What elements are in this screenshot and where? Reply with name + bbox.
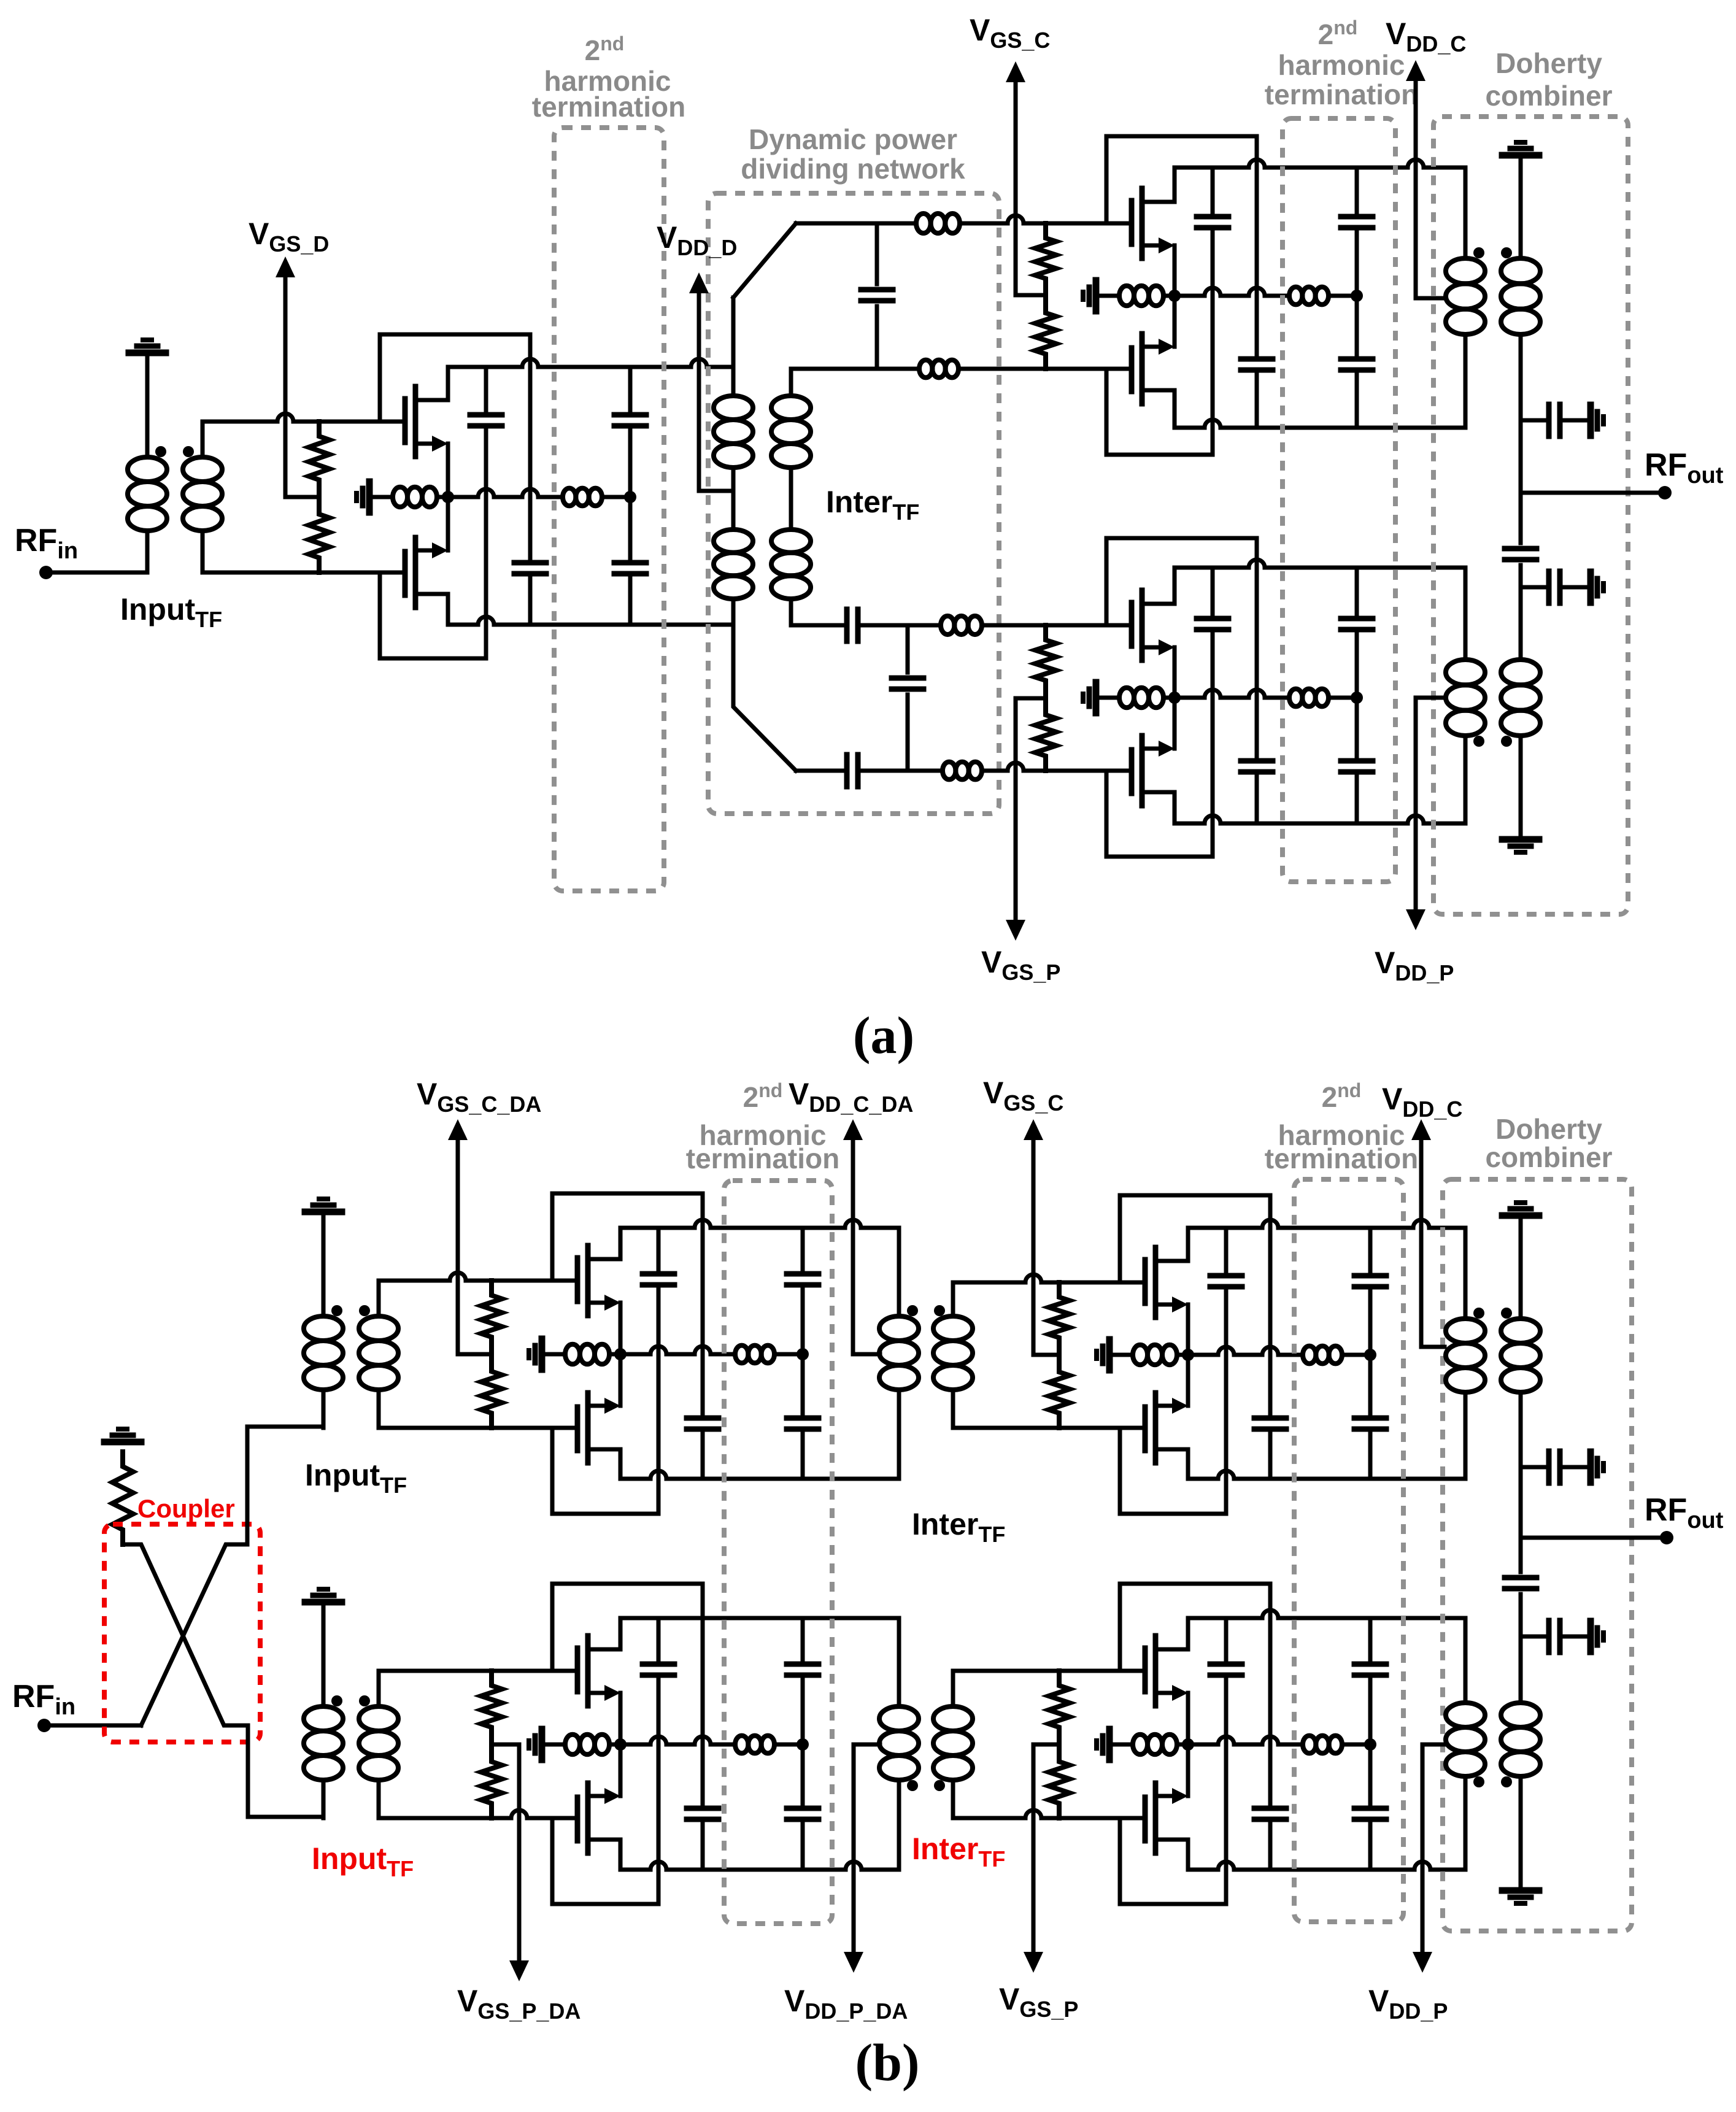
V_GS_P bias jog wire (a) xyxy=(1016,696,1046,701)
b-driver-peaking primary coil bottom lead xyxy=(322,1780,326,1818)
carrier gate bias resistor R-bottom xyxy=(1035,298,1056,369)
RF_in wire (b) xyxy=(44,1724,141,1728)
shunt cap to ground 1 (a) xyxy=(1521,418,1546,423)
b2nd-peaking gate-bottom rail xyxy=(953,1810,1145,1818)
driver secondary bottom lead xyxy=(201,531,205,572)
Doherty bottom primary bottom lead (b) xyxy=(1464,1776,1468,1870)
peaking branch series capacitor C-p1 xyxy=(844,609,850,641)
b-peaking tail line to harmonic network xyxy=(1188,1736,1303,1744)
RF_out terminal node (b) xyxy=(1660,1531,1673,1544)
b-carrier tail wire to inductor xyxy=(1109,1353,1133,1357)
b-carrier neutralization capacitor C-cross-bottom xyxy=(1224,1228,1229,1271)
driver upper NMOS source lead xyxy=(446,444,450,497)
Doherty top secondary ground (b) xyxy=(1502,1212,1539,1219)
2nd harmonic termination box (b left) xyxy=(724,1181,832,1924)
carrier harmonic-termination inductor L-2f0 xyxy=(1289,287,1302,305)
b-driver-carrier lower NMOS drain lead xyxy=(619,1449,623,1479)
carrier drain-top rail xyxy=(1175,160,1465,168)
b-carrier tail wire xyxy=(1177,1353,1188,1357)
Doherty top transformer dots (b) xyxy=(1473,1308,1484,1319)
combiner output line upper (b) xyxy=(1519,1392,1523,1538)
b-driver-carrier source junction node xyxy=(614,1348,627,1360)
InterTF secondary bottom lead xyxy=(789,599,793,625)
V_GS_C bias arrow (b) xyxy=(1032,1138,1036,1355)
b-driver-carrier tail ground xyxy=(539,1339,546,1370)
InterTF primary lower coil xyxy=(714,530,753,553)
b-driver-peaking harmonic-termination inductor L-2f0 xyxy=(735,1736,748,1754)
b-driver-peaking gate bias resistor R-top xyxy=(481,1671,502,1742)
V_DD_D bias arrow xyxy=(697,291,701,491)
V_DD_C center-tap jog (b) xyxy=(1421,1345,1445,1349)
Doherty bottom transformer primary coil (b) xyxy=(1446,1703,1485,1727)
b-driver-peaking drain-bottom rail xyxy=(620,1862,899,1870)
divider diagonal to peaking branch xyxy=(733,625,796,771)
b-driver-peaking input transformer primary ground xyxy=(305,1599,342,1606)
driver gate-top rail xyxy=(203,414,405,422)
InterTF secondary upper coil xyxy=(771,396,811,420)
b-driver-carrier tail wire to inductor xyxy=(542,1352,565,1357)
carrier gate-bottom rail w/ inductor xyxy=(791,367,919,371)
b-driver-peaking harmonic termination node xyxy=(797,1738,809,1751)
V_GS_P_DA bias jog wire xyxy=(492,1743,519,1747)
b-peaking harmonic termination capacitor C-bottom xyxy=(1368,1744,1373,1804)
peaking neutralization capacitor C-cross-top xyxy=(1241,758,1273,764)
b-peaking upper NMOS source lead xyxy=(1186,1693,1190,1744)
Doherty bottom transformer dots (a) xyxy=(1473,736,1484,747)
Doherty bottom transformer secondary coil (a) xyxy=(1501,660,1540,685)
carrier branch inductor L-c2 xyxy=(919,360,932,378)
V_DD_C center-tap jog (a) xyxy=(1416,296,1445,301)
b-driver-carrier lower NMOS source lead xyxy=(619,1354,623,1406)
peaking branch series capacitor C-p2 xyxy=(844,755,850,787)
carrier upper NMOS transistor xyxy=(1129,201,1135,244)
peaking upper NMOS source lead xyxy=(1173,647,1177,698)
InterTF (b2) primary coil xyxy=(879,1706,919,1731)
InterTF (b1) primary bottom lead xyxy=(897,1390,901,1479)
2nd harmonic termination box (b right) xyxy=(1294,1179,1403,1922)
b-carrier harmonic termination capacitor C-top xyxy=(1368,1228,1373,1271)
b-peaking neutralization capacitor C-cross-top xyxy=(1254,1806,1286,1811)
b-driver-peaking lower NMOS source lead xyxy=(619,1744,623,1796)
driver lower NMOS drain lead xyxy=(446,594,450,625)
coupler to bottom InputTF wire xyxy=(248,1725,323,1817)
carrier gate bias resistor R-top xyxy=(1035,223,1056,293)
InterTF secondary lower coil xyxy=(771,530,811,553)
RF_out wire (a) xyxy=(1521,491,1665,495)
combiner output line lower (a) xyxy=(1519,587,1523,660)
b-carrier drain-bottom rail xyxy=(1188,1471,1465,1479)
b-driver-carrier harmonic termination capacitor C-top xyxy=(801,1228,805,1270)
Doherty bottom secondary ground (a) xyxy=(1519,736,1523,839)
b2nd-peaking gate-top rail xyxy=(953,1669,1145,1673)
V_DD_C_DA center-tap jog xyxy=(853,1352,880,1357)
V_DD_P bias arrow (b) xyxy=(1421,1744,1425,1954)
b-driver-carrier transformer polarity dots xyxy=(331,1305,342,1316)
InterTF (b1) secondary bottom lead xyxy=(951,1390,955,1428)
peaking lower NMOS drain lead xyxy=(1173,792,1177,823)
b-driver-peaking wire xyxy=(774,1743,803,1747)
carrier tail wire to inductor xyxy=(1096,294,1119,298)
b-driver-peaking neutralization capacitor C-cross-bottom xyxy=(657,1618,661,1660)
driver upper NMOS transistor xyxy=(403,399,408,442)
shunt cap to ground 1 (b) xyxy=(1521,1465,1546,1470)
InterTF (b1) secondary top lead xyxy=(951,1282,955,1316)
peaking lower NMOS source lead xyxy=(1173,698,1177,749)
b-carrier cross-couple bottom loop wire xyxy=(1120,1428,1226,1514)
Dynamic power dividing network box xyxy=(708,193,999,814)
coupler isolation resistor xyxy=(112,1452,133,1544)
svg-text:termination: termination xyxy=(1265,1143,1418,1174)
carrier gate-bottom rail xyxy=(959,367,1132,371)
peaking tail choke inductor L-tail xyxy=(1119,688,1134,707)
peaking upper NMOS drain lead xyxy=(1173,568,1177,604)
Doherty top transformer secondary coil (a) xyxy=(1501,258,1540,283)
divider diagonal to carrier branch xyxy=(733,223,796,298)
b-carrier neutralization capacitor C-cross-top xyxy=(1254,1416,1286,1421)
b-peaking upper NMOS transistor xyxy=(1143,1648,1148,1692)
b-carrier harmonic termination capacitor C-bottom xyxy=(1368,1355,1373,1414)
coupler to top InputTF wire xyxy=(247,1427,323,1544)
peaking branch inductor L-p2 xyxy=(943,762,955,780)
carrier tail line to harmonic network xyxy=(1175,288,1289,296)
carrier upper NMOS drain lead xyxy=(1173,168,1177,202)
b-carrier upper NMOS transistor xyxy=(1143,1260,1148,1303)
V_DD_P_DA bias arrow xyxy=(852,1744,856,1954)
InterTF secondary mid stub xyxy=(789,468,793,530)
b-driver-peaking input transformer primary coil xyxy=(304,1706,343,1731)
carrier branch coupling capacitor C-div xyxy=(875,223,879,284)
peaking drain-top rail xyxy=(1175,560,1465,568)
carrier lower NMOS source lead xyxy=(1173,296,1177,347)
Doherty top transformer secondary coil (b) xyxy=(1501,1319,1540,1343)
b-peaking lower NMOS source lead xyxy=(1186,1744,1190,1796)
InterTF primary center-tap stub xyxy=(731,468,736,530)
peaking branch inductor L-p1 xyxy=(941,616,954,634)
b-driver-peaking upper NMOS source lead xyxy=(619,1693,623,1744)
b-driver-carrier input transformer primary ground xyxy=(305,1209,342,1216)
Doherty bottom secondary ground (b) xyxy=(1519,1776,1523,1890)
b-peaking harmonic-termination inductor L-2f0 xyxy=(1303,1736,1316,1754)
peaking gate bias resistor R-bottom xyxy=(1035,700,1056,771)
b-driver-peaking input transformer secondary coil xyxy=(359,1706,398,1731)
Doherty top transformer dots (a) xyxy=(1473,247,1484,258)
b-driver-peaking gate bias resistor R-bottom xyxy=(481,1747,502,1818)
Doherty top transformer primary feed (b) xyxy=(1464,1228,1468,1319)
b-driver-peaking tail line to harmonic network xyxy=(620,1736,735,1744)
InterTF secondary top lead xyxy=(789,369,793,396)
b-driver-peaking upper NMOS transistor xyxy=(575,1648,581,1692)
RF_in wire (a) xyxy=(46,571,147,575)
b-carrier tail choke inductor L-tail xyxy=(1133,1345,1148,1365)
b-peaking neutralization capacitor C-cross-bottom xyxy=(1224,1618,1229,1660)
carrier cross-couple top loop wire xyxy=(1106,136,1257,355)
V_DD_P center-tap jog (a) xyxy=(1416,696,1445,700)
InterTF (b2) secondary top lead xyxy=(951,1671,955,1706)
driver tail ground xyxy=(366,482,373,512)
b-driver-carrier wire xyxy=(774,1352,803,1357)
combiner series capacitor (a) xyxy=(1519,493,1523,543)
V_DD_C_DA bias arrow xyxy=(851,1138,855,1354)
b-driver-peaking tail ground xyxy=(539,1729,546,1760)
peaking cross-couple top loop wire xyxy=(1106,538,1257,757)
b-driver-carrier upper NMOS drain lead xyxy=(619,1228,623,1259)
carrier drain-bottom rail xyxy=(1175,420,1465,428)
driver input transformer secondary coil xyxy=(183,457,222,482)
carrier harmonic termination node xyxy=(1351,290,1363,302)
driver tail wire xyxy=(437,495,448,499)
b-peaking tail wire xyxy=(1177,1743,1188,1747)
driver tail choke inductor L-tail xyxy=(393,487,407,507)
b-peaking lower NMOS drain lead xyxy=(1186,1840,1190,1870)
b-peaking harmonic termination capacitor C-top xyxy=(1368,1618,1373,1660)
b-driver-carrier harmonic-termination inductor L-2f0 xyxy=(735,1346,748,1363)
peaking source junction node xyxy=(1168,692,1181,704)
svg-text:termination: termination xyxy=(1265,79,1418,110)
b-peaking wire xyxy=(1342,1743,1370,1747)
V_GS_D bias arrow xyxy=(284,275,288,497)
V_GS_C_DA bias arrow xyxy=(456,1138,460,1354)
V_DD_C bias arrow (b) xyxy=(1419,1138,1424,1347)
b-driver-carrier gate bias resistor R-bottom xyxy=(481,1357,502,1428)
2nd harmonic termination box (driver) xyxy=(554,128,664,891)
InterTF (b2) secondary coil xyxy=(933,1706,973,1731)
V_GS_C bias arrow (a) xyxy=(1014,80,1018,295)
svg-text:Doherty: Doherty xyxy=(1495,1113,1602,1145)
peaking gate-bottom rail segment xyxy=(796,769,847,773)
b-peaking source junction node xyxy=(1182,1738,1194,1751)
svg-text:Dynamic power: Dynamic power xyxy=(749,123,957,155)
Doherty bottom transformer secondary coil (b) xyxy=(1501,1703,1540,1727)
peaking wire xyxy=(1329,696,1357,700)
b-peaking drain-top rail xyxy=(1188,1610,1465,1618)
combiner output line lower (b) xyxy=(1519,1636,1523,1703)
V_GS_C bias jog wire (b) xyxy=(1033,1353,1059,1357)
b-driver-carrier neutralization capacitor C-cross-bottom xyxy=(657,1228,661,1270)
coupler box xyxy=(104,1524,260,1742)
svg-text:termination: termination xyxy=(686,1143,839,1174)
Doherty top transformer primary coil (b) xyxy=(1446,1319,1485,1343)
V_DD_P center-tap jog (b) xyxy=(1422,1743,1445,1747)
peaking tail line to harmonic network xyxy=(1175,690,1289,698)
coupler X branch 2 xyxy=(141,1544,247,1725)
Doherty top secondary ground (a) xyxy=(1502,152,1539,159)
V_GS_P bias arrow (a) xyxy=(1014,698,1018,922)
driver secondary top lead xyxy=(201,422,205,457)
driver source junction node xyxy=(442,491,454,503)
b-carrier lower NMOS transistor xyxy=(1143,1407,1148,1451)
b-driver-peaking secondary top lead xyxy=(377,1671,381,1706)
b-driver-carrier tail line to harmonic network xyxy=(620,1346,735,1354)
carrier lower NMOS transistor xyxy=(1129,348,1135,391)
carrier branch inductor L-c1 xyxy=(916,214,931,233)
b-driver-carrier upper NMOS transistor xyxy=(575,1258,581,1301)
b-peaking drain-bottom rail xyxy=(1188,1862,1465,1870)
b-driver-peaking drain-top rail xyxy=(620,1616,899,1621)
InterTF primary bottom stub xyxy=(731,599,736,625)
driver gate bias resistor R-top xyxy=(309,422,330,495)
b-driver-peaking tail choke inductor L-tail xyxy=(565,1735,580,1754)
b-driver-carrier primary coil bottom lead xyxy=(322,1390,326,1428)
combiner series capacitor (b) xyxy=(1519,1538,1523,1572)
b-driver-carrier harmonic termination capacitor C-bottom xyxy=(801,1354,805,1414)
peaking lower NMOS transistor xyxy=(1129,750,1135,793)
driver primary coil bottom lead xyxy=(145,531,150,572)
carrier lower NMOS drain lead xyxy=(1173,390,1177,428)
Doherty bottom primary top lead (b) xyxy=(1464,1618,1468,1703)
driver harmonic termination capacitor C-bottom xyxy=(628,497,633,558)
b-driver-peaking upper NMOS drain lead xyxy=(619,1618,623,1649)
driver upper NMOS drain lead xyxy=(446,367,450,400)
b-carrier harmonic-termination inductor L-2f0 xyxy=(1303,1346,1316,1364)
InterTF (b1) primary feed xyxy=(897,1228,901,1316)
svg-text:Doherty: Doherty xyxy=(1495,47,1602,79)
b-driver-peaking harmonic termination capacitor C-bottom xyxy=(801,1744,805,1804)
b-driver-carrier gate-top rail xyxy=(379,1273,577,1281)
carrier upper NMOS source lead xyxy=(1173,245,1177,296)
peaking tail wire to inductor xyxy=(1096,696,1119,700)
driver tail line to harmonic network xyxy=(448,489,563,497)
V_DD_P bias arrow (a) xyxy=(1414,698,1418,912)
coupler isolation resistor ground xyxy=(104,1439,141,1446)
InterTF (b1) secondary coil xyxy=(933,1316,973,1341)
b-driver-carrier harmonic termination node xyxy=(797,1348,809,1360)
b-driver-carrier tail wire xyxy=(609,1352,620,1357)
V_DD_C bias arrow (a) xyxy=(1414,79,1418,298)
svg-text:Coupler: Coupler xyxy=(137,1494,235,1523)
carrier gate-top rail w/ inductor xyxy=(796,222,916,226)
b-driver-peaking gate-top rail xyxy=(379,1669,577,1673)
Doherty top transformer primary feed (a) xyxy=(1464,168,1468,258)
carrier tail choke inductor L-tail xyxy=(1119,286,1134,306)
driver input transformer primary ground xyxy=(129,350,166,356)
peaking gate-top rail segment2 xyxy=(858,623,941,628)
b-carrier drain-top rail xyxy=(1188,1220,1465,1228)
b-peaking upper NMOS drain lead xyxy=(1186,1618,1190,1649)
b-driver-peaking transformer polarity dots xyxy=(331,1695,342,1706)
b-carrier upper NMOS source lead xyxy=(1186,1305,1190,1355)
peaking gate bias resistor R-top xyxy=(1035,625,1056,695)
driver harmonic termination capacitor C-top xyxy=(628,367,633,410)
b-peaking tail wire to inductor xyxy=(1109,1743,1133,1747)
b-driver-carrier neutralization capacitor C-cross-top xyxy=(687,1416,719,1421)
RF_out terminal node (a) xyxy=(1658,486,1672,499)
driver tail wire to inductor xyxy=(369,495,393,499)
svg-text:dividing network: dividing network xyxy=(741,153,965,185)
V_DD_P_DA center-tap jog xyxy=(854,1743,880,1747)
driver cross-couple bottom loop wire xyxy=(380,572,486,658)
b-driver-carrier input transformer primary coil xyxy=(304,1316,343,1341)
peaking tail wire xyxy=(1163,696,1175,700)
InterTF (b1) primary coil xyxy=(879,1316,919,1341)
V_GS_D bias jog wire xyxy=(285,495,319,499)
b-driver-peaking tail wire to inductor xyxy=(542,1743,565,1747)
b-driver-carrier drain-top rail xyxy=(620,1220,899,1228)
driver gate-bottom rail xyxy=(203,571,405,575)
b-driver-carrier tail choke inductor L-tail xyxy=(565,1344,580,1364)
b-driver-carrier lower NMOS transistor xyxy=(575,1407,581,1451)
peaking upper NMOS transistor xyxy=(1129,603,1135,646)
peaking gate-top rail segment xyxy=(791,623,847,628)
b-driver-carrier secondary bottom lead xyxy=(377,1390,381,1428)
b-driver-peaking harmonic termination capacitor C-top xyxy=(801,1618,805,1660)
driver input transformer primary coil xyxy=(128,457,167,482)
Doherty bottom transformer dots (b) xyxy=(1473,1776,1484,1787)
InterTF (b2) primary feed xyxy=(897,1618,901,1706)
carrier cross-couple bottom loop wire xyxy=(1106,369,1213,455)
driver cross-couple top loop wire xyxy=(380,334,530,558)
carrier harmonic termination capacitor C-bottom xyxy=(1355,296,1359,355)
b2nd-carrier gate-bottom rail xyxy=(953,1426,1145,1430)
b-peaking gate bias resistor R-top xyxy=(1049,1671,1070,1742)
Doherty combiner box (b) xyxy=(1443,1179,1632,1931)
b-driver-carrier input transformer secondary coil xyxy=(359,1316,398,1341)
V_GS_P_DA bias arrow xyxy=(517,1744,522,1963)
svg-text:(b): (b) xyxy=(855,2033,919,2092)
b-carrier gate bias resistor R-top xyxy=(1049,1282,1070,1352)
shunt cap to ground 2 (a) xyxy=(1521,585,1546,590)
coupler X branch 1 xyxy=(123,1544,248,1725)
InterTF (b2) primary bottom lead xyxy=(897,1780,901,1870)
carrier gate-top rail xyxy=(960,215,1132,223)
b-carrier wire xyxy=(1342,1353,1370,1357)
b-driver-carrier cross-couple bottom loop wire xyxy=(552,1428,658,1514)
driver lower NMOS transistor xyxy=(403,552,408,595)
RF_out wire (b) xyxy=(1521,1536,1667,1540)
V_GS_C bias jog wire (a) xyxy=(1016,293,1046,298)
driver harmonic-termination inductor L-2f0 xyxy=(563,488,576,506)
peaking cross-couple bottom loop wire xyxy=(1106,771,1213,857)
b-carrier lower NMOS drain lead xyxy=(1186,1449,1190,1479)
b-carrier tail ground xyxy=(1106,1339,1113,1370)
peaking neutralization capacitor C-cross-bottom xyxy=(1211,568,1215,614)
Doherty bottom transformer primary coil (a) xyxy=(1446,660,1485,685)
Doherty combiner box (a) xyxy=(1433,117,1628,914)
carrier wire xyxy=(1329,294,1357,298)
b-driver-peaking cross-couple bottom loop wire xyxy=(552,1818,658,1904)
b-driver-peaking tail wire xyxy=(609,1743,620,1747)
b-carrier tail line to harmonic network xyxy=(1188,1347,1303,1355)
carrier neutralization capacitor C-cross-top xyxy=(1241,356,1273,362)
b-carrier gate bias resistor R-bottom xyxy=(1049,1357,1070,1428)
peaking gate-bottom rail segment3 xyxy=(982,763,1132,771)
b-peaking cross-couple top loop wire xyxy=(1120,1584,1270,1804)
b-driver-carrier cross-couple top loop wire xyxy=(552,1193,703,1414)
peaking harmonic termination node xyxy=(1351,692,1363,704)
V_GS_P bias jog wire (b) xyxy=(1033,1743,1059,1747)
Doherty bottom primary top lead (a) xyxy=(1464,568,1468,660)
b-driver-carrier secondary top lead xyxy=(377,1281,381,1316)
driver transformer polarity dots xyxy=(155,446,166,457)
carrier tail ground xyxy=(1093,280,1100,311)
b-driver-peaking cross-couple top loop wire xyxy=(552,1584,703,1804)
driver lower NMOS source lead xyxy=(446,497,450,550)
b-peaking cross-couple bottom loop wire xyxy=(1120,1818,1226,1904)
V_GS_C_DA bias jog wire xyxy=(458,1352,492,1357)
peaking drain-bottom rail xyxy=(1175,815,1465,823)
driver wire xyxy=(602,495,630,499)
b-peaking gate bias resistor R-bottom xyxy=(1049,1747,1070,1818)
b-driver-peaking lower NMOS drain lead xyxy=(619,1840,623,1870)
peaking harmonic termination capacitor C-top xyxy=(1355,568,1359,614)
svg-text:termination: termination xyxy=(532,91,685,123)
b-driver-peaking lower NMOS transistor xyxy=(575,1797,581,1841)
svg-text:harmonic: harmonic xyxy=(1278,49,1405,81)
b-carrier harmonic termination node xyxy=(1364,1349,1376,1361)
V_DD_D center-tap jog wire xyxy=(699,489,733,493)
carrier tail wire xyxy=(1163,294,1175,298)
InterTF (b2) dots xyxy=(907,1780,918,1791)
peaking harmonic termination capacitor C-bottom xyxy=(1355,698,1359,757)
